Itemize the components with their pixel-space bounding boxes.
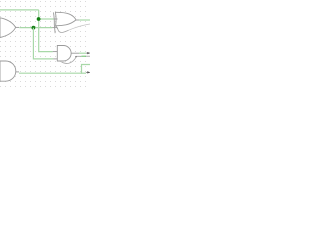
wire from J2 down then right to U2 lower input: [33, 28, 53, 59]
and-gate G2 (bottom-left, clipped by left edge): [0, 61, 16, 81]
G2 output pin stub: [16, 71, 19, 73]
terminal T2 arrow bottom right: [87, 71, 90, 73]
xor-gate U1 body: [55, 12, 76, 25]
wire net A from left edge along top: [0, 9, 39, 11]
U1 output pin stub: [76, 19, 79, 21]
wire continuation to terminal T2: [82, 72, 87, 74]
U2 output pin stub: [71, 52, 79, 54]
wire U1 output to right edge: [79, 19, 90, 21]
right edge component pin on U4 net: [86, 55, 90, 57]
U4 pin junction nub: [75, 56, 76, 57]
node J2 junction dot: [32, 26, 36, 30]
terminal T1 arrow mid right: [87, 52, 90, 54]
hidden gate U4 bottom arc (under AND U2): [62, 57, 77, 63]
hidden gate U3 white interior fill (beak under XOR): [56, 20, 78, 33]
wire U2 output: [79, 52, 86, 54]
U2 input pin stub upper: [53, 51, 58, 53]
U4 output pin: [76, 55, 82, 57]
hidden gate U3 bottom arc sweeping to right edge: [58, 29, 69, 32]
U1 outer input arc continuing into U3 arc: [54, 12, 56, 33]
G1 output pin stub: [16, 26, 19, 28]
wire from gate G1 output: [19, 27, 52, 29]
or-gate G1 (top-left, clipped by left edge): [0, 18, 16, 38]
wire vertical down then right to AND U2 input: [39, 10, 53, 52]
node J1 junction dot: [37, 17, 41, 21]
wire G2 output across bottom: [19, 72, 82, 74]
wire elbow up and right to edge: [82, 65, 91, 74]
and-gate U2 (bottom-right): [57, 46, 71, 62]
wire branch to XOR U1 input: [39, 18, 54, 20]
U2 input pin stub lower: [53, 58, 57, 60]
hidden gate U3 input pin stub: [52, 27, 57, 29]
wire U4 output segment: [81, 55, 86, 57]
U1 input pin stub: [54, 18, 58, 20]
U1 inner arc continuation to U3 corner: [56, 26, 58, 30]
